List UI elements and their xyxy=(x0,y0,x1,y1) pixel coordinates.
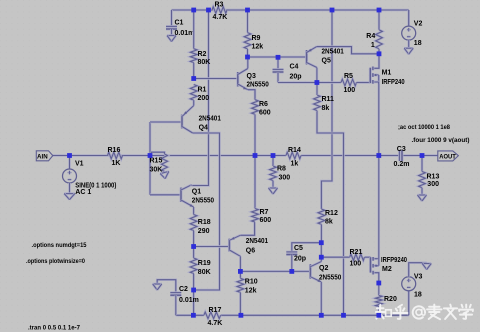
value Q1 2N5550 xyxy=(192,198,214,205)
label R19 xyxy=(198,260,211,267)
wire vertical x219 Q4 collector down xyxy=(193,133,220,290)
directive options numdgt xyxy=(32,242,87,249)
value V2 18 xyxy=(414,40,422,47)
svg-text:12k: 12k xyxy=(252,44,264,51)
label V1 xyxy=(75,161,84,168)
node dot Q6 collector R10 xyxy=(238,269,243,274)
svg-text:R4: R4 xyxy=(366,33,375,40)
ground V2 xyxy=(404,48,413,54)
svg-text:80K: 80K xyxy=(198,59,211,66)
label M1 xyxy=(382,70,392,77)
value R7 600 xyxy=(260,217,272,224)
value C1 0.01m xyxy=(175,30,195,37)
value R18 290 xyxy=(198,228,210,235)
svg-text:1k: 1k xyxy=(291,161,299,168)
value R6 600 xyxy=(259,110,271,117)
svg-text:290: 290 xyxy=(198,228,210,235)
value R19 80K xyxy=(198,269,211,276)
wire R2-R1 node to Q3 base xyxy=(194,77,238,80)
wire C4 to R11/R5 node xyxy=(278,81,317,84)
value Q3 2N5550 xyxy=(247,82,269,89)
label R10 xyxy=(245,279,258,286)
svg-text:V1: V1 xyxy=(75,161,84,168)
value R9 12k xyxy=(252,44,264,51)
label Q5 2N5401 xyxy=(322,49,344,56)
svg-text:IRFP240: IRFP240 xyxy=(382,79,405,86)
node dot R10 rail xyxy=(239,313,244,318)
resistor R21 xyxy=(321,254,370,261)
svg-text:600: 600 xyxy=(259,110,271,117)
svg-text:R15: R15 xyxy=(150,158,163,165)
node dot R2 top xyxy=(191,8,196,13)
svg-text:Q2: Q2 xyxy=(319,265,328,272)
svg-text:R18: R18 xyxy=(198,219,211,226)
label R3 xyxy=(215,2,224,9)
svg-text:R7: R7 xyxy=(260,209,269,216)
resistor R5 xyxy=(317,79,370,86)
svg-text:Q5: Q5 xyxy=(322,58,331,65)
svg-text:R20: R20 xyxy=(384,296,397,303)
label V3 xyxy=(414,274,423,281)
label R18 xyxy=(198,219,211,226)
wire Q4 base horizontal xyxy=(150,121,182,124)
svg-text:R9: R9 xyxy=(252,35,261,42)
value V3 18 xyxy=(414,292,422,299)
value R16 1K xyxy=(112,160,121,167)
value R12 8k xyxy=(325,219,333,226)
transistor Q3 xyxy=(238,57,255,100)
svg-text:4.7K: 4.7K xyxy=(213,14,228,21)
node dot R4 top xyxy=(377,8,382,13)
ground R15 xyxy=(160,171,169,178)
value R17 4.7K xyxy=(208,320,223,327)
wire vertical x343 R11 to bottom rail xyxy=(317,111,344,316)
svg-text:R6: R6 xyxy=(259,101,268,108)
value V1 AC 1 xyxy=(75,189,91,196)
svg-text:V2: V2 xyxy=(414,20,423,27)
svg-text:0.01m: 0.01m xyxy=(179,297,199,304)
value V1 SINE xyxy=(75,183,116,190)
label R20 xyxy=(384,296,397,303)
resistor R7 xyxy=(240,156,258,236)
flag AOUT xyxy=(438,151,459,161)
svg-text:R2: R2 xyxy=(198,51,207,58)
wire V2 bottom xyxy=(407,40,410,48)
svg-text:2N5401: 2N5401 xyxy=(199,116,221,123)
node dot R8 rail xyxy=(271,153,276,158)
wire V2 top xyxy=(407,10,410,26)
resistor R10 xyxy=(237,271,244,315)
label R12 xyxy=(325,210,338,217)
svg-text:12k: 12k xyxy=(245,288,257,295)
svg-text:0.2m: 0.2m xyxy=(394,161,410,168)
label Q1 xyxy=(192,189,201,196)
resistor R20 xyxy=(376,283,383,315)
svg-text:R12: R12 xyxy=(325,210,338,217)
value R10 12k xyxy=(245,288,257,295)
ground V3 xyxy=(422,264,431,270)
svg-text:C4: C4 xyxy=(290,64,299,71)
svg-text:20p: 20p xyxy=(294,256,306,263)
value C5 20p xyxy=(294,256,306,263)
value R2 80K xyxy=(198,59,211,66)
svg-text:R19: R19 xyxy=(198,260,211,267)
node dot Q2 emitter rail xyxy=(319,313,324,318)
label R6 xyxy=(259,101,268,108)
ground R8 xyxy=(269,188,278,194)
svg-text:8k: 8k xyxy=(325,219,333,226)
label M2 xyxy=(382,266,392,273)
node dot x343 rail xyxy=(341,313,346,318)
svg-text:C2: C2 xyxy=(179,286,188,293)
svg-text:2N5550: 2N5550 xyxy=(192,198,214,205)
value R3 4.7K xyxy=(213,14,228,21)
resistor R4 xyxy=(376,10,383,54)
node dot output node xyxy=(376,153,381,158)
label R13 xyxy=(427,174,440,181)
svg-text:R21: R21 xyxy=(350,249,363,256)
svg-text:300: 300 xyxy=(427,181,439,188)
directive four xyxy=(412,137,470,144)
ground V1 xyxy=(64,194,75,200)
node dot Q3 collector R9 xyxy=(245,55,250,60)
svg-text:18: 18 xyxy=(414,292,422,299)
label Q6 2N5401 xyxy=(246,238,268,245)
value R14 1k xyxy=(291,161,299,168)
wire R19 bottom to rail xyxy=(192,290,195,315)
resistor R19 xyxy=(190,247,197,291)
svg-text:.options numdgt=15: .options numdgt=15 xyxy=(32,242,87,249)
svg-text:300: 300 xyxy=(279,175,291,182)
wire to Q6 base xyxy=(194,245,230,248)
voltage source V1 xyxy=(63,156,77,194)
svg-text:80K: 80K xyxy=(198,269,211,276)
svg-text:Q3: Q3 xyxy=(247,73,256,80)
svg-text:100: 100 xyxy=(344,87,356,94)
wire mid signal rail AIN side xyxy=(53,154,287,157)
svg-text:8k: 8k xyxy=(322,105,330,112)
transistor Q5 xyxy=(307,47,379,83)
label C5 xyxy=(294,245,303,252)
capacitor C2 xyxy=(157,280,181,316)
svg-text:IRFP9240: IRFP9240 xyxy=(381,257,407,264)
value R8 300 xyxy=(279,175,291,182)
svg-text:100: 100 xyxy=(350,261,362,268)
resistor R12 xyxy=(318,209,325,243)
label R4 xyxy=(366,33,375,40)
value R5 100 xyxy=(344,87,356,94)
value R21 100 xyxy=(350,261,362,268)
label Q4 2N5401 xyxy=(199,116,221,123)
node dot R12 bottom C5 xyxy=(319,240,324,245)
resistor R13 xyxy=(419,156,426,196)
label R15 xyxy=(150,158,163,165)
label Q6 xyxy=(246,248,255,255)
svg-text:R3: R3 xyxy=(215,2,224,9)
transistor Q4 xyxy=(182,100,194,133)
resistor R8 xyxy=(270,156,277,189)
value C3 0.2m xyxy=(394,161,410,168)
transistor Q1 xyxy=(181,185,194,207)
node dot C4 top xyxy=(276,55,281,60)
svg-text:Q6: Q6 xyxy=(246,248,255,255)
svg-text:1K: 1K xyxy=(112,160,121,167)
resistor R16 xyxy=(108,152,123,159)
label V2 xyxy=(414,20,423,27)
svg-text:AIN: AIN xyxy=(37,154,48,161)
svg-text:.four 1000 9 v(aout): .four 1000 9 v(aout) xyxy=(412,137,470,144)
svg-text:Q4: Q4 xyxy=(199,125,208,132)
value R1 200 xyxy=(198,95,210,102)
svg-text:R16: R16 xyxy=(108,147,121,154)
directive tran xyxy=(28,324,80,331)
value R13 300 xyxy=(427,181,439,188)
resistor R1 xyxy=(190,85,197,106)
label Q5 xyxy=(322,58,331,65)
directive ac xyxy=(398,124,450,131)
resistor R17 xyxy=(204,312,221,319)
label C1 xyxy=(175,20,184,27)
svg-text:AC 1: AC 1 xyxy=(75,189,91,196)
wire Q4 base vertical xyxy=(149,122,152,195)
svg-text:C3: C3 xyxy=(397,146,406,153)
watermark xyxy=(376,305,473,320)
svg-text:2N5550: 2N5550 xyxy=(247,82,269,89)
node dot R1 R2 junction xyxy=(191,76,196,81)
resistor R18 xyxy=(190,207,197,247)
svg-text:20p: 20p xyxy=(290,74,302,81)
node dot R19 bottom xyxy=(191,288,196,293)
resistor R14 xyxy=(286,152,301,159)
wire mid rail right of R14 xyxy=(301,154,399,157)
label Q4 xyxy=(199,125,208,132)
svg-text:AOUT: AOUT xyxy=(439,155,456,161)
wire Q3-collector node to Q5 base xyxy=(248,56,307,59)
ground R13 xyxy=(418,195,427,201)
wire Q1 base horizontal xyxy=(150,194,181,197)
label R21 xyxy=(350,249,363,256)
label C2 xyxy=(179,286,188,293)
svg-text:2N5401: 2N5401 xyxy=(246,238,268,245)
label Q2 xyxy=(319,265,328,272)
svg-text:R17: R17 xyxy=(209,307,222,314)
wire vertical x208 Q1 collector to top rail xyxy=(192,10,209,186)
svg-text:0.01m: 0.01m xyxy=(175,30,195,37)
value Q2 2N5550 xyxy=(319,275,341,282)
svg-text:C1: C1 xyxy=(175,20,184,27)
node dot C3 right xyxy=(420,153,425,158)
transistor Q2 xyxy=(310,257,321,315)
svg-text:18: 18 xyxy=(414,40,422,47)
label M2 IRFP9240 xyxy=(381,257,407,264)
node dot x332 top rail xyxy=(330,8,335,13)
svg-text:R10: R10 xyxy=(245,279,258,286)
value C2 0.01m xyxy=(179,297,199,304)
value R11 8k xyxy=(322,105,330,112)
svg-text:R14: R14 xyxy=(288,147,301,154)
label R8 xyxy=(277,166,286,173)
svg-text:2N5550: 2N5550 xyxy=(319,275,341,282)
label R2 xyxy=(198,51,207,58)
resistor R15 xyxy=(150,152,168,173)
svg-text:R13: R13 xyxy=(427,174,440,181)
capacitor C5 xyxy=(286,243,321,272)
svg-text:C5: C5 xyxy=(294,245,303,252)
label R5 xyxy=(344,73,353,80)
directive options plotwinsize xyxy=(26,258,85,265)
flag AIN xyxy=(36,151,53,161)
node dot R3 right xyxy=(245,8,250,13)
ground C1 xyxy=(167,36,176,42)
node dot R11 top xyxy=(315,80,320,85)
value C4 20p xyxy=(290,74,302,81)
svg-text:M2: M2 xyxy=(382,266,392,273)
node dot R18 R19 xyxy=(191,244,196,249)
voltage source V3 xyxy=(402,263,427,316)
node dot R4 bottom / M1 drain xyxy=(377,51,382,56)
resistor R2 xyxy=(190,10,197,79)
node dot R6 R7 rail xyxy=(253,153,258,158)
node dot M2 drain xyxy=(376,281,381,286)
wire mid rail right of C3 xyxy=(402,154,437,157)
wire Q6 collector to Q2 base xyxy=(240,270,310,273)
capacitor C4 xyxy=(273,57,284,82)
label C3 xyxy=(397,146,406,153)
wire top supply rail xyxy=(172,9,409,12)
node dot input divider xyxy=(148,153,153,158)
label C4 xyxy=(290,64,299,71)
node dot R3 left xyxy=(206,8,211,13)
wire R12-C5 segment xyxy=(320,243,323,258)
label R1 xyxy=(198,87,207,94)
resistor R11 xyxy=(314,83,321,111)
capacitor C3 xyxy=(399,150,402,161)
svg-text:R8: R8 xyxy=(277,166,286,173)
transistor Q6 xyxy=(229,235,240,271)
label Q3 xyxy=(247,73,256,80)
wire bottom rail right of R17 xyxy=(221,314,409,317)
svg-text:4.7K: 4.7K xyxy=(208,320,223,327)
mosfet M2 xyxy=(371,257,379,283)
svg-text:R11: R11 xyxy=(322,96,335,103)
label R9 xyxy=(252,35,261,42)
voltage source V2 xyxy=(402,26,416,40)
svg-text:30K: 30K xyxy=(150,166,163,173)
svg-text:R5: R5 xyxy=(344,73,353,80)
node dot Q2 collector R21 xyxy=(319,255,324,260)
node dot rail x193 xyxy=(191,313,196,318)
svg-text:.options plotwinsize=0: .options plotwinsize=0 xyxy=(26,258,85,265)
wire vertical x332 top rail to R12 jog xyxy=(321,10,332,209)
label R11 xyxy=(322,96,335,103)
svg-text:2N5401: 2N5401 xyxy=(322,49,344,56)
label R14 xyxy=(288,147,301,154)
label R7 xyxy=(260,209,269,216)
svg-text:600: 600 xyxy=(260,217,272,224)
svg-text:;ac oct 10000 1 1e8: ;ac oct 10000 1 1e8 xyxy=(398,124,450,131)
resistor R3 xyxy=(209,7,248,14)
svg-text:.tran 0 0.5 0.1 1e-7: .tran 0 0.5 0.1 1e-7 xyxy=(28,324,80,331)
ground C2 xyxy=(153,284,162,290)
svg-text:200: 200 xyxy=(198,95,210,102)
resistor R6 xyxy=(252,100,259,156)
svg-text:R1: R1 xyxy=(198,87,207,94)
value R4 1 xyxy=(371,42,375,49)
capacitor C1 xyxy=(166,10,177,35)
svg-text:M1: M1 xyxy=(382,70,392,77)
value R15 30K xyxy=(150,166,163,173)
wire vertical x379 M1 source to M2 source xyxy=(378,84,381,258)
wire bottom rail left of R17 xyxy=(176,314,204,317)
svg-text:Q1: Q1 xyxy=(192,189,201,196)
value M1 IRFP240 xyxy=(382,79,405,86)
label R17 xyxy=(209,307,222,314)
svg-text:1: 1 xyxy=(371,42,375,49)
node dot V1 top xyxy=(67,153,72,158)
mosfet M1 xyxy=(370,54,379,84)
svg-text:V3: V3 xyxy=(414,274,423,281)
node dot C5 bottom xyxy=(289,269,294,274)
node dot R20 rail xyxy=(376,313,381,318)
resistor R9 xyxy=(244,10,251,57)
label R16 xyxy=(108,147,121,154)
